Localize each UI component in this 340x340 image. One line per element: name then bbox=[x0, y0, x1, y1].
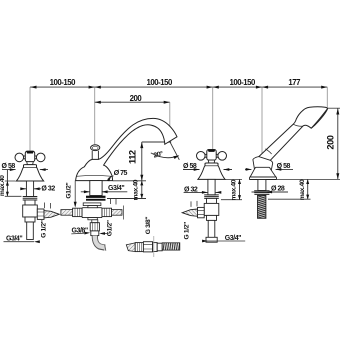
leader D75 arc bbox=[108, 176, 114, 180]
wire extension shower head top bbox=[328, 107, 340, 109]
spout mounting nut bar lower bbox=[86, 199, 106, 201]
arrow max40 valve1 bottom bbox=[6, 192, 9, 197]
dimension 200 spout reach bbox=[95, 101, 170, 103]
svg-text:max.40: max.40 bbox=[0, 175, 6, 196]
spout mounting nut bar upper bbox=[86, 196, 106, 198]
flexible hose assembly bbox=[126, 236, 180, 257]
arrow D58 valve2 left bbox=[194, 168, 200, 171]
hose centerline bbox=[153, 236, 155, 257]
svg-text:max.40: max.40 bbox=[133, 179, 140, 200]
svg-text:Ø 32: Ø 32 bbox=[41, 185, 55, 192]
arrow D58 valve1 left bbox=[10, 168, 16, 171]
dimension D58 valve2 bbox=[183, 169, 232, 171]
valve1 side fitting nut bbox=[37, 209, 44, 219]
valve1 bell collar line bbox=[24, 166, 37, 168]
wire extension spout axis bbox=[94, 87, 96, 144]
spout tee left nipple hatched bbox=[61, 210, 73, 216]
spout tee right nut ridges bbox=[104, 208, 109, 216]
arrow chain right of valve2 bbox=[213, 86, 219, 89]
dimension max.40 valve1 bbox=[6, 170, 8, 197]
valve1 body block bbox=[23, 205, 38, 217]
valve 2 cold tap (mirrored) bbox=[182, 150, 226, 238]
arrow 112 bottom bbox=[140, 175, 143, 181]
hose ring bbox=[153, 243, 158, 252]
shower holder cup bbox=[253, 157, 273, 171]
dimension D58 valve1 bbox=[2, 169, 48, 171]
hose olive tip bbox=[126, 243, 135, 252]
wire extension valve1 axis bbox=[29, 87, 31, 150]
arrow chain left of spout bbox=[89, 86, 95, 89]
spout tee left nut ridges bbox=[75, 208, 80, 216]
svg-text:G1/2": G1/2" bbox=[65, 183, 72, 199]
svg-text:Ø 58: Ø 58 bbox=[277, 163, 291, 170]
shower handle grip line bbox=[265, 149, 271, 154]
svg-text:Ø 75: Ø 75 bbox=[114, 170, 128, 177]
valve1 washer stack bbox=[23, 197, 38, 201]
spout tee right tick dim bbox=[111, 199, 117, 205]
spout escutcheon rim line bbox=[76, 174, 112, 177]
svg-text:177: 177 bbox=[288, 78, 300, 87]
spout J pipe fill bbox=[95, 236, 105, 248]
hose ridged section bbox=[135, 243, 143, 252]
spout hose sleeve bbox=[91, 231, 99, 236]
arrow 112 top bbox=[140, 142, 143, 148]
spout tee to nut connector bbox=[92, 220, 98, 223]
shower holder escutcheon bbox=[250, 167, 276, 177]
svg-text:200: 200 bbox=[325, 135, 335, 149]
valve1 shank bbox=[26, 181, 33, 197]
spout diverter knob bbox=[92, 151, 98, 160]
dimension D32 valve1 bbox=[21, 188, 42, 190]
spout J pipe bbox=[95, 236, 105, 248]
svg-text:Ø 58: Ø 58 bbox=[2, 163, 16, 170]
shower washer lines bbox=[254, 191, 269, 195]
shower escutcheon rim bbox=[249, 177, 276, 180]
svg-text:112: 112 bbox=[128, 150, 138, 164]
arrow 200v top bbox=[336, 108, 339, 114]
svg-text:G 1/2": G 1/2" bbox=[40, 220, 47, 238]
svg-text:Ø 28: Ø 28 bbox=[271, 185, 285, 192]
leader G3/4 valve1 bbox=[4, 241, 35, 243]
valve2 pipe extension bbox=[206, 237, 217, 242]
arrow D32 valve1 left bbox=[20, 187, 26, 190]
dimension max.40 valve2 bbox=[239, 179, 241, 199]
svg-text:100-150: 100-150 bbox=[50, 78, 77, 87]
spout coupling nut ridges bbox=[93, 223, 98, 231]
spout tee right tick bbox=[123, 206, 125, 220]
wire deck line shower bbox=[276, 178, 340, 180]
arrow 200 right bbox=[164, 101, 170, 104]
spout tee right ridged nut bbox=[102, 208, 112, 216]
arrow D58 shower right bbox=[276, 168, 282, 171]
arrow G3/4 valve1 bbox=[34, 240, 40, 243]
spout J pipe end bbox=[105, 244, 106, 250]
valve 1 hot tap bbox=[15, 151, 59, 239]
valve1 cross handle right knob bbox=[36, 153, 45, 162]
arrow D32 valve2 right bbox=[216, 191, 222, 194]
arrow chain at valve1 bbox=[30, 86, 36, 89]
shower shank bbox=[258, 180, 266, 191]
valve1 fitting tick dim bbox=[45, 203, 51, 209]
arrow outlet level right bbox=[165, 141, 171, 144]
hose hex nut bbox=[143, 242, 152, 252]
arrow chain right end bbox=[321, 86, 327, 89]
dimension D28 shower bbox=[252, 191, 289, 193]
arrow max40 shower bottom bbox=[306, 195, 309, 200]
svg-text:G 1/2": G 1/2" bbox=[184, 222, 191, 240]
svg-text:G 3/8": G 3/8" bbox=[145, 217, 152, 235]
svg-text:100-150: 100-150 bbox=[229, 78, 256, 87]
arrow chain right of spout bbox=[95, 86, 101, 89]
spout coupling nut bbox=[90, 223, 99, 231]
spout tee top flange bbox=[88, 206, 97, 208]
shower waist collar line bbox=[293, 124, 303, 126]
valve2 max40 extension lines bbox=[219, 179, 242, 199]
arrow G1/2 spout left bbox=[74, 202, 77, 208]
valve1 handle hub bbox=[25, 151, 34, 162]
shower threaded stud bbox=[258, 195, 266, 218]
dimension D32 valve2 bbox=[184, 191, 221, 193]
hose corrugated section bbox=[162, 243, 180, 250]
spout tee left ridged nut bbox=[73, 208, 82, 216]
leader G3/8 spout bbox=[71, 232, 84, 235]
angle line 20 degrees bbox=[167, 137, 179, 160]
hand shower group bbox=[249, 107, 327, 218]
wire shower bottom extension bbox=[268, 198, 311, 200]
dimension D58 shower bbox=[245, 168, 293, 170]
wire extension outlet bottom level bbox=[142, 141, 171, 143]
hose hex nut lines bbox=[143, 245, 152, 249]
dimension 112 spout height bbox=[141, 142, 143, 181]
svg-text:G3/4": G3/4" bbox=[108, 185, 124, 192]
valve1 body upper bbox=[25, 200, 35, 205]
valve1 neck bbox=[27, 162, 34, 165]
valve1 side fitting hex lines bbox=[37, 212, 44, 216]
wire spout bottom extension bbox=[107, 198, 146, 200]
arrow 20 arc bbox=[173, 155, 179, 159]
shower face edge bbox=[311, 109, 327, 129]
valve1 escutcheon bell bbox=[16, 165, 43, 181]
leader G1/2 spout left bbox=[74, 181, 76, 206]
arc 20 degrees bbox=[151, 153, 179, 158]
dimension max.40 shower bbox=[307, 179, 309, 199]
arrow D32 valve1 bbox=[34, 187, 40, 190]
shower handle and head bbox=[259, 107, 328, 161]
svg-text:20°: 20° bbox=[153, 150, 164, 160]
spout group bbox=[61, 118, 177, 250]
valve1 cross handle left knob bbox=[15, 153, 24, 162]
wire top dimension chain line bbox=[30, 86, 327, 88]
arrow G3/8 spout bbox=[84, 232, 90, 235]
svg-text:max.40: max.40 bbox=[230, 179, 237, 200]
arrow D58 valve2 right bbox=[224, 168, 230, 171]
spout tee right nipple hatched bbox=[112, 210, 123, 216]
leader G3/4 valve2 bbox=[202, 240, 245, 242]
arrow D58 valve1 right bbox=[40, 168, 46, 171]
arrow max40 valve1 top bbox=[6, 181, 9, 186]
arrow G1/2 spout bbox=[99, 232, 105, 235]
arrow 200 left bbox=[95, 101, 101, 104]
wire extension spout outlet bbox=[169, 102, 171, 135]
hose ridge lines bbox=[137, 243, 141, 252]
arrow D75 bbox=[107, 176, 111, 181]
arrow max40 spout bottom bbox=[140, 194, 143, 199]
leader G3/4 spout bbox=[81, 191, 128, 193]
arrow chain left of shower bbox=[256, 86, 262, 89]
svg-text:200: 200 bbox=[130, 94, 143, 103]
arrow G3/4 spout bbox=[102, 190, 108, 193]
leader G1/2 spout bbox=[101, 233, 109, 235]
wire extension shower axis bbox=[261, 87, 263, 157]
arrow 200v bottom bbox=[336, 173, 339, 179]
svg-text:100-150: 100-150 bbox=[146, 78, 173, 87]
arrow chain left of valve2 bbox=[207, 86, 213, 89]
spout shank flange bbox=[83, 203, 101, 206]
spout body and escutcheon outline bbox=[76, 118, 177, 180]
spout tee bottom tail bbox=[88, 218, 97, 220]
spout knob ball bbox=[91, 145, 100, 151]
spout tee body bbox=[82, 208, 102, 218]
arrow chain right of shower bbox=[262, 86, 268, 89]
arrow D28 shower bbox=[266, 191, 272, 194]
dimension max.40 spout bbox=[141, 181, 143, 199]
valve1 side fitting cone bbox=[44, 211, 59, 218]
valve1 hub cap bbox=[26, 151, 34, 153]
spout shank bbox=[90, 181, 102, 196]
arrow G3/4 valve2 bbox=[202, 240, 208, 243]
arrow max40 shower top bbox=[306, 179, 309, 184]
valve1 cross handle spokes bbox=[24, 156, 37, 159]
wire deck line spout bbox=[113, 180, 146, 182]
valve1 body lower bbox=[25, 217, 35, 222]
wire extension right end bbox=[326, 87, 328, 108]
valve1 max40 extension lines bbox=[5, 181, 22, 196]
valve1 inlet pipe bbox=[27, 222, 34, 240]
spout knob ball inner bbox=[92, 146, 98, 149]
arrow D58 shower left bbox=[246, 168, 252, 171]
arrow D32 valve2 left bbox=[202, 191, 208, 194]
hose collar bbox=[157, 243, 162, 251]
arrow G3/4 spout left bbox=[84, 190, 90, 193]
dimension 200 shower height bbox=[337, 108, 339, 179]
wire extension valve2 axis bbox=[212, 87, 214, 149]
arrow max40 valve2 top bbox=[238, 179, 241, 184]
arrow max40 valve2 bottom bbox=[238, 195, 241, 200]
svg-text:Ø 32: Ø 32 bbox=[184, 186, 198, 193]
arrow max40 spout top bbox=[140, 181, 143, 186]
svg-text:max.40: max.40 bbox=[299, 179, 306, 200]
svg-text:Ø 58: Ø 58 bbox=[183, 163, 197, 170]
